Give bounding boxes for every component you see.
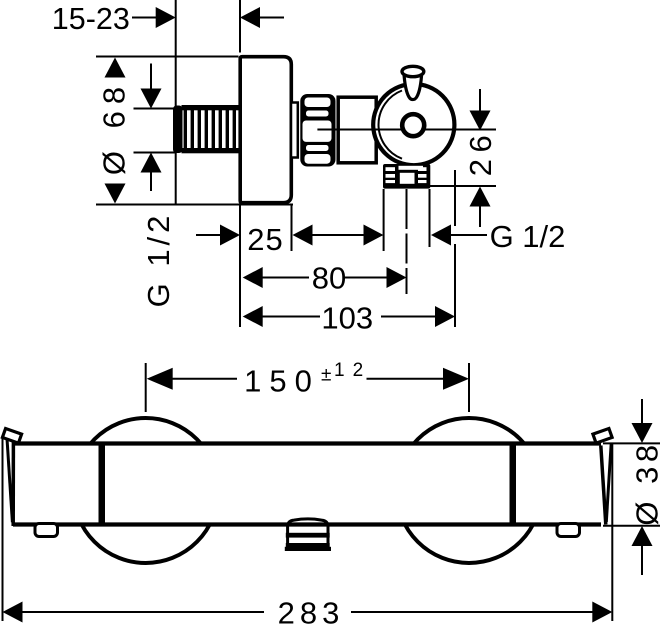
svg-text:80: 80 [312, 261, 346, 296]
svg-text:±: ± [321, 365, 331, 386]
svg-text:150: 150 [244, 364, 320, 399]
svg-text:G 1/2: G 1/2 [141, 212, 176, 308]
svg-text:283: 283 [278, 596, 345, 630]
svg-text:Ø 68: Ø 68 [97, 80, 132, 175]
svg-text:25: 25 [247, 222, 283, 257]
svg-text:15-23: 15-23 [52, 2, 130, 36]
svg-text:G 1/2: G 1/2 [490, 219, 566, 254]
svg-text:26: 26 [463, 129, 498, 176]
svg-text:Ø 38: Ø 38 [630, 440, 660, 525]
svg-text:103: 103 [321, 301, 373, 336]
svg-text:12: 12 [334, 360, 371, 381]
